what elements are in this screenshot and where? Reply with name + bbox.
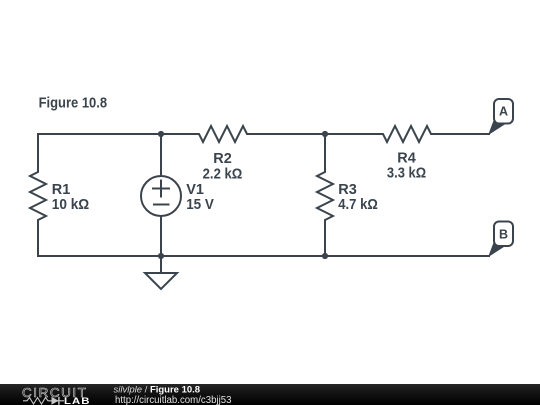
- svg-text:R1: R1: [52, 182, 71, 198]
- svg-text:silvlple / Figure 10.8: silvlple / Figure 10.8: [114, 385, 201, 396]
- svg-text:A: A: [499, 105, 508, 119]
- svg-text:R4: R4: [397, 150, 416, 166]
- svg-text:B: B: [499, 227, 508, 241]
- svg-text:2.2 kΩ: 2.2 kΩ: [203, 166, 243, 182]
- svg-text:Figure 10.8: Figure 10.8: [39, 96, 108, 112]
- svg-text:3.3 kΩ: 3.3 kΩ: [387, 165, 427, 181]
- svg-text:10 kΩ: 10 kΩ: [52, 197, 90, 213]
- svg-text:R3: R3: [338, 182, 357, 198]
- svg-text:LAB: LAB: [64, 396, 91, 405]
- svg-text:R2: R2: [213, 151, 232, 167]
- svg-text:V1: V1: [186, 182, 204, 198]
- svg-text:4.7 kΩ: 4.7 kΩ: [338, 197, 378, 213]
- svg-text:http://circuitlab.com/c3bjj53: http://circuitlab.com/c3bjj53: [115, 395, 232, 405]
- svg-text:15 V: 15 V: [186, 197, 214, 213]
